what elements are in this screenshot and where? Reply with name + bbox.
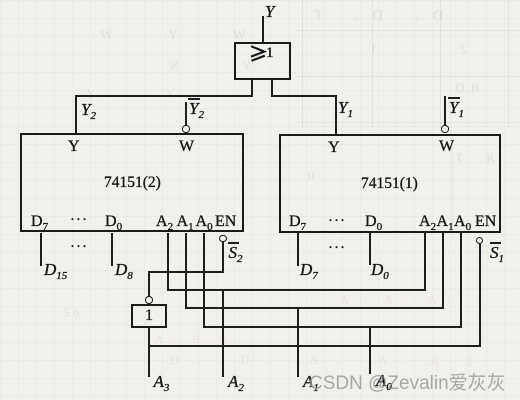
mux U1 ellipsis [328,214,346,229]
inverted output bubble W1 [441,125,448,132]
ellipsis between D pins U2 [70,240,88,255]
mux U2 74151(2) body [20,133,244,232]
wire S2 horizontal to inverter [148,271,224,273]
wire U1 pin D0 [369,233,371,265]
wire branch to Y1 horizontal [271,95,336,97]
active-low enable bubble S1 [476,237,483,244]
watermark [309,368,506,395]
wire A1 net right vertical [442,233,444,309]
faint bleed-through ghosts [300,8,444,25]
mux U2 pin label A0 [196,214,213,230]
node A2 label [228,373,244,390]
inverter output bubble [145,296,153,304]
node D15 label [44,261,67,278]
node A0 label [376,372,392,389]
ellipsis between D pins U1 [328,241,346,256]
mux U2 pin label A2 [156,214,173,230]
mux U2 pin label D7 [31,214,48,230]
mux U2 pin label W [179,139,194,155]
wire OR output stub right [271,80,273,97]
wire A2 net horizontal [167,289,426,291]
node Ybar2 label [189,100,204,117]
mux U1 pin label Y [328,140,340,156]
wire A0 net left vertical [203,233,205,328]
faint table-line ghosts top right [302,0,303,128]
node S1bar label [490,244,504,261]
mux U2 pin label A1 [177,214,194,230]
mux U1 pin label D7 [289,214,306,230]
wire inverter output vertical [148,271,150,297]
node Ybar1 label [449,99,464,116]
mux U2 part number [104,175,161,191]
mux U1 74151(1) body [279,134,501,233]
node Y output label [265,3,274,20]
wire W2 stub [185,102,187,126]
mux U1 pin label A2 [419,214,436,230]
wire A1 input stub [297,307,299,377]
wire A0 input stub [369,326,371,374]
wire S1 vertical [479,244,481,347]
node D7 label [300,261,318,278]
wire branch to Y2 horizontal [75,95,253,97]
wire A2 input stub [222,289,224,377]
mux U2 ellipsis [70,213,88,228]
wire branch to Y1 vertical [335,95,337,135]
wire A3 net inverter input vertical [148,328,150,377]
node A1 label [303,373,319,390]
wire U2 pin D7 [40,233,42,267]
wire S2 vertical from bubble [222,242,224,272]
node Y2 label [81,101,96,118]
wire A1 net left vertical [185,233,187,310]
wire A0 net horizontal [203,326,462,328]
active-low enable bubble S2 [219,235,226,242]
wire A2 net left vertical [167,233,169,291]
mux U1 pin label EN [475,214,496,230]
wire OR output stub left [251,80,253,97]
wire Y output stub [262,16,264,42]
mux U1 pin label W [439,139,454,155]
wire branch to Y2 vertical [75,95,77,134]
node A3 label [154,373,170,390]
mux U1 pin label A1 [437,214,454,230]
wire A3 net horizontal [148,345,480,347]
inverted output bubble W2 [182,125,189,132]
wire A0 net right vertical [460,233,462,327]
mux U2 pin label D0 [105,214,122,230]
wire A2 net right vertical [424,233,426,291]
wire W1 stub [444,96,446,126]
mux U1 part number [361,176,418,192]
mux U1 pin label D0 [365,214,382,230]
wire A1 net horizontal [185,307,444,309]
inverter G2 box "1" [131,304,168,328]
or-gate G1 (&ge;1) [234,42,291,80]
node Y1 label [338,99,353,116]
node S2bar label [229,244,243,261]
mux U2 pin label Y [68,139,80,155]
node D8 label [115,261,133,278]
node D0 label [371,261,389,278]
wire U2 pin D0 [111,233,113,266]
mux U1 pin label A0 [454,214,471,230]
mux U2 pin label EN [215,214,236,230]
wire U1 pin D7 [297,233,299,266]
